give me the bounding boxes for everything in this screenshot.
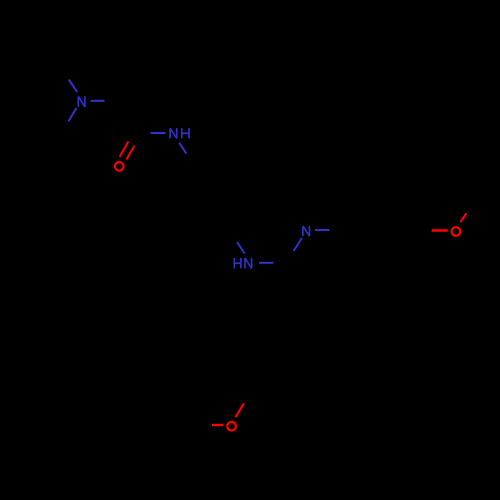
benzene ring 3 (bottom methoxyphenyl) xyxy=(232,329,270,427)
bond C(central)=N4, blue half xyxy=(294,238,302,251)
bond C(=O)-N2, blue half xyxy=(151,132,166,134)
carbonyl C=O double bond, red halves xyxy=(120,141,129,157)
wire: N-CH2-C(=O) chain xyxy=(118,100,135,133)
atom label O5 (right methoxy O) xyxy=(452,227,461,236)
bond phenyl-N3, blue half xyxy=(237,242,245,253)
bond CH3-O6, red half xyxy=(212,424,223,426)
wire: ethyl CH2-CH3 (top left) xyxy=(41,37,60,70)
wire: central amidine C xyxy=(272,263,291,329)
benzene ring 1 (N-phenyl) xyxy=(174,166,250,232)
bond N1-CH2 (upper-left ethyl), blue half xyxy=(69,80,77,92)
atom label N2 (amide NH) xyxy=(170,128,189,138)
atom label N1 (diethylamino N) xyxy=(78,96,85,107)
atom label O6 (bottom methoxy O) xyxy=(227,422,236,431)
wire: O-CH3 (bottom) xyxy=(193,424,212,426)
atom label O2 (carbonyl O) xyxy=(115,162,124,171)
bond N1-CH2 (lower-left ethyl), blue half xyxy=(68,108,76,121)
benzene ring 2 (right methoxyphenyl) xyxy=(344,197,420,263)
bond N4-aryl, blue half xyxy=(315,229,330,231)
wire: ethyl CH2-CH3 (bottom left) xyxy=(23,133,61,135)
bond aryl-O5, red half xyxy=(432,229,448,231)
bond N2-phenyl, blue half xyxy=(179,143,186,154)
bond O5-CH3, red half xyxy=(460,213,466,222)
atom label N3 (amidine HN) xyxy=(234,258,251,269)
bond N3-C(central), blue half xyxy=(259,262,273,264)
invisible carbon skeleton (black on black) xyxy=(23,37,475,426)
bond O6-aryl, red half xyxy=(235,403,243,417)
wire: O-CH3 (right) xyxy=(456,199,475,232)
bond N1-CH2 (right, to acetyl), blue half xyxy=(91,100,105,102)
atom label N4 (imine N) xyxy=(303,226,310,236)
